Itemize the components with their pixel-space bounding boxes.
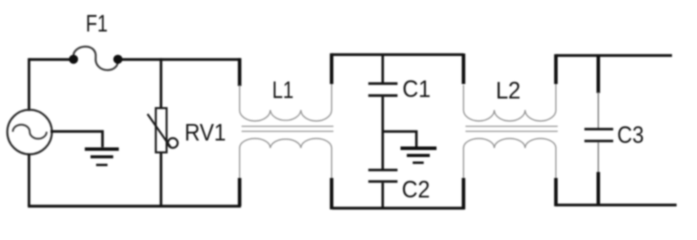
- capacitor C2 plates: [368, 170, 397, 182]
- choke L2 core lines: [466, 126, 558, 131]
- svg-text:C1: C1: [402, 76, 430, 103]
- ground left bar3: [96, 164, 107, 166]
- svg-text:L2: L2: [496, 78, 521, 105]
- svg-text:C2: C2: [402, 176, 430, 203]
- ground left bar2: [91, 155, 114, 158]
- wire top rail middle segment: [332, 53, 464, 56]
- wire top rail left segment to fuse: [29, 58, 70, 61]
- wire left vertical from corner to source: [28, 58, 31, 111]
- AC source circle: [7, 110, 52, 155]
- choke L2 right bottom bar: [554, 178, 558, 206]
- svg-text:RV1: RV1: [185, 119, 227, 146]
- choke L2 bottom winding: [464, 138, 556, 178]
- capacitor C3 plates: [584, 129, 613, 141]
- ground middle bar1: [401, 147, 437, 151]
- choke L1 core lines: [242, 126, 334, 131]
- wire C3 top lead thin: [597, 92, 599, 128]
- fuse F1 left terminal dot: [69, 55, 78, 64]
- svg-text:C3: C3: [617, 122, 644, 149]
- choke L2 right top bar: [554, 54, 558, 84]
- wire top rail right segment: [556, 54, 672, 57]
- ground left bar1: [85, 147, 119, 150]
- AC source sine wave: [13, 125, 47, 139]
- wire C3 bottom lead thin: [597, 142, 599, 173]
- fuse F1 right terminal dot: [113, 55, 122, 64]
- capacitor C1 plates: [368, 84, 397, 96]
- wire C1 top lead: [381, 55, 384, 83]
- choke L2 top winding: [464, 84, 556, 121]
- choke L1 right top bar: [330, 53, 334, 84]
- wire C1 to C2 mid lead: [381, 97, 384, 169]
- varistor RV1 body: [156, 108, 167, 152]
- varistor RV1 curl: [168, 138, 178, 148]
- svg-text:F1: F1: [86, 11, 108, 38]
- wire source bottom to bottom rail: [28, 154, 31, 206]
- wire bottom rail middle segment: [332, 207, 464, 210]
- wire bottom rail right segment: [556, 204, 677, 207]
- wire RV1 top lead: [160, 58, 163, 108]
- wire C3 top lead thick: [597, 56, 601, 94]
- wire mid lead to middle ground: [382, 130, 418, 147]
- ground middle bar3: [413, 162, 424, 164]
- choke L1 top winding: [240, 84, 332, 121]
- wire C3 bottom lead thick: [597, 172, 601, 205]
- choke L1 bottom winding: [240, 138, 332, 178]
- choke L1 left bottom bar: [238, 178, 242, 206]
- varistor RV1 diagonal: [148, 114, 171, 147]
- wire top rail fuse to L1 corner: [122, 58, 241, 61]
- svg-text:L1: L1: [272, 77, 294, 104]
- choke L1 left top bar: [238, 58, 242, 86]
- choke L2 left bottom bar: [462, 178, 466, 209]
- fuse F1 curve: [73, 47, 118, 70]
- wire C2 bottom lead: [381, 183, 384, 209]
- wire RV1 bottom lead: [160, 152, 163, 206]
- choke L1 right bottom bar: [330, 178, 334, 209]
- wire bottom rail left segment: [28, 205, 241, 208]
- ground middle bar2: [407, 154, 430, 157]
- wire source to left ground: [51, 130, 104, 147]
- choke L2 left top bar: [462, 54, 466, 85]
